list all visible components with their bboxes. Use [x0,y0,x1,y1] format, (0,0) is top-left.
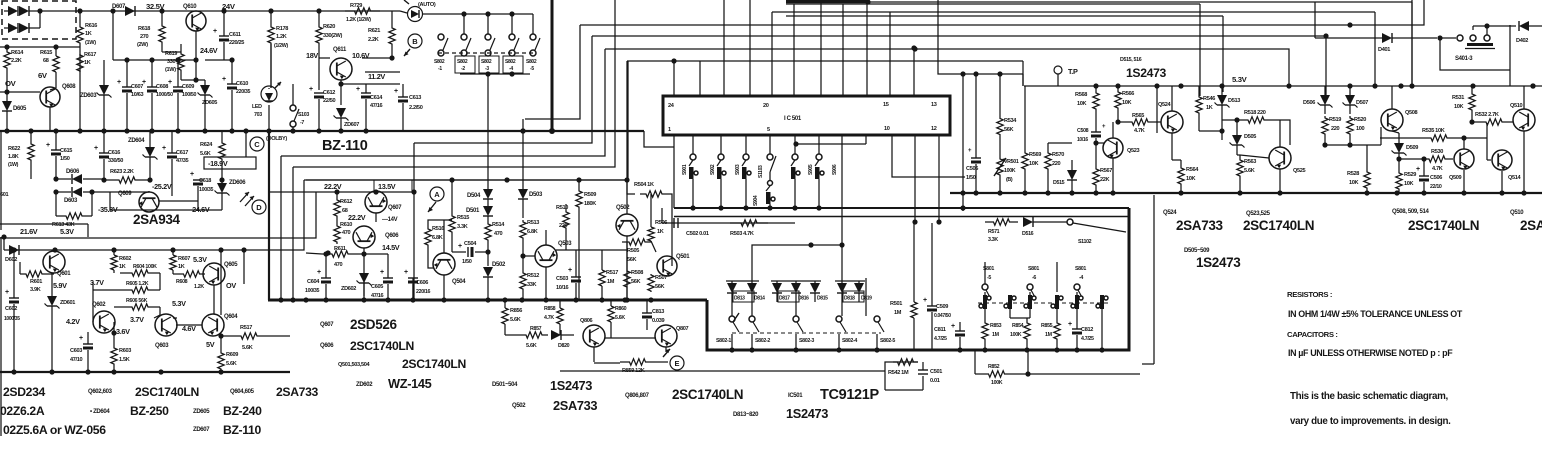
svg-text:R512: R512 [527,273,539,279]
svg-text:33K: 33K [527,282,537,288]
svg-text:Q508: Q508 [1405,110,1418,116]
wire Q609 row [110,191,222,210]
resistor R504 [634,182,672,266]
svg-text:R609: R609 [226,352,238,358]
wire pinB x866 [793,135,866,147]
resistor R610 [334,218,352,244]
junction y193 [1237,190,1242,195]
label Q508,509,514 [1392,209,1429,215]
resistor R513 [520,220,539,240]
wire pinB x746 [745,135,747,154]
svg-text:2SA733: 2SA733 [553,398,597,413]
contact c3 [1024,292,1036,318]
svg-text:S103: S103 [298,112,309,118]
svg-text:vary due to improvements. in d: vary due to improvements. in design. [1290,416,1451,427]
wire left edge [0,237,2,436]
svg-text:24.6V: 24.6V [200,46,218,55]
wire q509 links [1464,138,1502,193]
svg-text:1M: 1M [1045,332,1053,338]
resistor R528 [1347,145,1370,193]
svg-text:10/16: 10/16 [556,285,568,291]
switch S802-1b [716,313,739,350]
switch S802-5t [526,14,540,72]
svg-text:(1W): (1W) [8,162,19,168]
svg-text:S904: S904 [753,195,759,206]
resistor R622 [8,131,34,179]
label 5.3V node [193,255,207,264]
junction [11,369,16,374]
svg-text:S401-3: S401-3 [1455,56,1473,62]
svg-text:+: + [404,269,408,276]
svg-text:S901: S901 [682,164,688,175]
pin 12 [931,126,937,132]
wire pin x821 [820,0,822,96]
svg-text:R546: R546 [1203,96,1215,102]
svg-text:C813: C813 [652,309,664,315]
wire s801 dashed [978,302,1108,304]
diode D503 [518,128,543,218]
junction [520,128,525,133]
junction [175,128,180,133]
wire bus y36 [592,33,1329,38]
svg-text:2SC1740LN: 2SC1740LN [1408,218,1479,233]
svg-text:ZD605: ZD605 [202,100,217,106]
svg-text:-4: -4 [1079,275,1083,281]
resistor R546 [1196,86,1215,131]
label 2SA733 [276,385,319,399]
svg-text:RESISTORS :: RESISTORS : [1287,290,1332,299]
svg-text:R532 2.7K: R532 2.7K [1475,112,1499,118]
svg-text:R570: R570 [1052,152,1064,158]
node E circled [663,349,684,370]
note basic1 [1290,391,1448,402]
svg-text:R569: R569 [1029,152,1041,158]
label 5V [206,340,215,349]
transistor Q606 [353,226,399,248]
svg-text:Q504: Q504 [452,279,466,285]
junction y86 [1347,83,1352,88]
label Q524 type [1163,210,1177,216]
svg-text:1000/35: 1000/35 [4,316,20,322]
wire pinB x843 [841,135,843,281]
svg-text:10.6V: 10.6V [352,51,370,60]
svg-text:C618: C618 [199,178,211,184]
label TC9121P [820,387,879,403]
label Q523,525 [1246,211,1271,217]
label ZD605 type [193,409,210,415]
junction y193 [1069,190,1074,195]
svg-text:LED: LED [252,104,262,110]
label Q502 type [512,403,526,409]
junction y211 [690,205,695,210]
wire d8xx header [726,280,865,282]
rectifier diode pair lower [4,11,40,33]
svg-text:Q806: Q806 [580,318,593,324]
label 5.3V node2 [172,299,186,308]
svg-text:2SC1740LN: 2SC1740LN [1243,218,1314,233]
zener ZD603 [80,60,112,131]
wire main rail y=131 [0,130,644,132]
junction [158,369,163,374]
svg-text:C502 0.01: C502 0.01 [686,231,709,237]
svg-text:Q510: Q510 [1510,210,1524,216]
svg-text:C608: C608 [156,84,168,90]
svg-text:1M: 1M [894,310,902,316]
svg-text:5.6K: 5.6K [1244,168,1255,174]
svg-text:(1W): (1W) [85,40,96,46]
junction y300 [385,297,390,302]
junction y300 [290,297,295,302]
svg-text:2SA733: 2SA733 [276,385,319,399]
svg-text:47/16: 47/16 [370,103,382,109]
resistor R604 [114,264,160,276]
svg-text:D503: D503 [529,192,543,198]
svg-text:5.6K: 5.6K [226,361,237,367]
svg-text:R621: R621 [368,28,380,34]
svg-text:R535 10K: R535 10K [1422,128,1445,134]
resistor R517m [599,250,618,300]
pin 10 [884,126,890,132]
svg-text:C603: C603 [70,348,82,354]
label D813~820 [733,412,759,418]
label 2SC1740LN [135,385,199,399]
svg-text:R606 56K: R606 56K [126,298,148,304]
resistor R852 [975,350,1140,386]
contact c1 [979,292,991,322]
label ZD604 type [90,409,110,415]
svg-text:+: + [79,335,83,342]
svg-text:Q524: Q524 [1158,102,1172,108]
label -18.9V boxed [204,131,256,169]
resistor R567 [1093,143,1112,193]
pin 15 [883,102,889,108]
svg-text:270: 270 [140,34,149,40]
capacitor C611 [213,8,244,60]
IC U501 box [663,96,950,135]
svg-text:S906: S906 [832,164,838,175]
resistor R603 [111,330,131,372]
svg-text:D505~509: D505~509 [1184,248,1210,254]
svg-text:+: + [5,289,9,296]
svg-text:R501: R501 [890,301,902,307]
junction y350 [836,347,841,352]
capacitor C506 [1416,159,1442,193]
svg-text:1000/50: 1000/50 [156,92,173,98]
svg-text:C609: C609 [182,84,194,90]
svg-text:R542 1M: R542 1M [888,370,909,376]
svg-text:R618: R618 [138,26,150,32]
svg-text:D402: D402 [1516,38,1528,44]
label OV node [226,281,236,290]
svg-text:R529: R529 [1404,172,1416,178]
transistor Q524 [1158,102,1183,133]
wire pin x750 [749,0,751,96]
transistor Q603 [155,314,177,349]
label 2SC1740LN big [1243,218,1314,233]
svg-text:S801: S801 [1075,266,1086,272]
label BZ-110 [322,138,368,154]
svg-text:2SC1740LN: 2SC1740LN [672,387,743,402]
svg-text:D814: D814 [754,296,765,302]
pin 24 [668,103,675,109]
junction y193 [1364,190,1369,195]
wire q523 links [1093,122,1113,193]
svg-text:1S2473: 1S2473 [1196,255,1241,270]
resistor R509 [576,180,596,300]
label 24.6V [200,46,218,55]
svg-text:1S2473: 1S2473 [550,378,592,393]
svg-text:02Z5.6A or WZ-056: 02Z5.6A or WZ-056 [3,423,106,437]
svg-text:R516: R516 [432,226,444,232]
svg-text:S802: S802 [505,59,516,65]
switch S802-4b [836,316,857,350]
zener D507 [1343,86,1369,114]
junction y300 [599,297,604,302]
transistor Q609 [118,191,159,212]
wire pinB x795 [794,135,796,154]
junction [549,128,554,133]
label 1S2473 mid [550,378,592,393]
svg-text:R615: R615 [40,50,52,56]
label 1S2473 b [786,406,828,421]
capacitor C613 [394,84,423,131]
junction [49,369,54,374]
auto diode circle [404,0,423,22]
junction [241,247,246,252]
svg-text:100K: 100K [991,380,1003,386]
svg-text:10/63: 10/63 [131,92,143,98]
wire bus y12 [772,11,1375,13]
junction y300 [624,297,629,302]
svg-text:10K: 10K [1454,104,1464,110]
svg-text:5.6K: 5.6K [242,345,253,351]
svg-text:BZ-110: BZ-110 [223,423,261,437]
svg-text:Q807: Q807 [676,326,689,332]
svg-text:Q601: Q601 [57,271,71,277]
svg-text:2SA733: 2SA733 [1176,218,1224,233]
junction y86 [1178,83,1183,88]
svg-text:+: + [117,79,121,86]
diode D818 [837,281,864,302]
svg-text:R565: R565 [1132,113,1144,119]
svg-text:D816: D816 [798,296,809,302]
svg-text:10K: 10K [1122,100,1132,106]
junction y300 [573,297,578,302]
svg-text:100/35: 100/35 [199,187,214,193]
junction y86 [1470,83,1475,88]
IC501 name [784,116,802,122]
svg-text:Q524: Q524 [1163,210,1177,216]
junction [52,247,57,252]
junction [85,369,90,374]
svg-text:4.7/25: 4.7/25 [934,336,947,342]
label Q510t [1510,210,1524,216]
resistor R616 [77,22,97,48]
svg-text:C: C [254,140,260,149]
capacitor C606 [404,269,431,300]
wire pin x867 [866,2,868,96]
svg-text:2SC1740LN: 2SC1740LN [350,339,414,353]
label 3.7V node2 [130,315,144,324]
label (AUTO) [418,2,436,8]
transistor Q501 [657,254,690,276]
svg-text:C611: C611 [229,32,241,38]
diode D606 [53,169,104,184]
svg-text:R622: R622 [8,146,20,152]
resistor R615 [40,44,59,88]
wire q508 [1322,86,1399,148]
svg-text:68: 68 [43,58,49,64]
resistor R606 [114,298,160,315]
diode D502 [483,242,506,300]
wire pin x772 [771,12,773,96]
diode D401 [1315,2,1443,53]
label WZ-145 [388,376,432,391]
test point TP [1054,66,1078,86]
svg-text:2SC1740LN: 2SC1740LN [135,385,199,399]
svg-text:C617: C617 [176,150,188,156]
svg-text:+: + [923,297,927,304]
svg-text:R518 220: R518 220 [1244,110,1266,116]
capacitor C610 [205,57,251,131]
wire bus y16 [786,15,1223,17]
junction y193 [1521,190,1526,195]
svg-text:BZ-110: BZ-110 [322,138,368,154]
svg-text:S802-4: S802-4 [842,338,857,344]
label Q604,605 [230,389,255,395]
wire Q611 base [319,55,395,90]
resistor R605 [93,273,160,322]
svg-text:Q603: Q603 [155,343,169,349]
svg-text:-5: -5 [530,66,534,72]
switch S401-3 [1455,35,1495,62]
svg-text:1/50: 1/50 [60,156,70,162]
wire pinB x770 [769,135,771,154]
label Q606 2SC1740LN [320,339,414,353]
junction [11,247,16,252]
resistor R520 [1347,116,1366,145]
junction y300 [543,297,548,302]
svg-text:R729: R729 [350,3,362,9]
resistor R857 [505,326,548,349]
svg-text:S1103: S1103 [758,165,764,178]
svg-text:220/25: 220/25 [229,40,244,46]
wire left 6V row [0,46,80,48]
svg-text:OV: OV [226,281,236,290]
diode D603 [56,187,110,204]
svg-text:R563: R563 [1244,159,1256,165]
contact c2 [1004,295,1016,318]
junction y193 [1461,190,1466,195]
svg-text:Q501: Q501 [676,254,690,260]
junction y211 [792,205,797,210]
svg-text:5.3V: 5.3V [1232,75,1248,84]
svg-text:1.2K (1/2W): 1.2K (1/2W) [346,17,371,23]
svg-text:R528: R528 [1347,171,1359,177]
wire q806 q807 links [594,330,666,362]
junction y193 [1093,190,1098,195]
resistor R503 [730,220,768,237]
wire left border bottom [0,131,88,237]
capacitor C501 [885,362,942,390]
svg-text:D509: D509 [1406,145,1418,151]
wire bus x1200 drop [1199,4,1201,96]
switch S103-7 [290,84,309,131]
svg-text:ZD607: ZD607 [193,427,210,433]
resistor R535 [1380,123,1491,160]
svg-text:Q611: Q611 [333,47,347,53]
junction y350 [749,347,754,352]
svg-text:Q610: Q610 [183,4,197,10]
svg-text:D813~820: D813~820 [733,412,759,418]
svg-text:+: + [568,267,572,274]
svg-text:S802-5: S802-5 [880,338,895,344]
svg-text:18V: 18V [306,51,318,60]
junction [124,128,129,133]
wire s401 up [1473,23,1516,35]
svg-text:C616: C616 [108,150,120,156]
resistor R516m [425,220,452,268]
svg-text:D515, 516: D515, 516 [1120,57,1142,63]
wire x1058 tp [1022,74,1024,86]
resistor R601 [20,262,54,293]
svg-text:R509: R509 [584,192,596,198]
svg-text:15: 15 [883,102,889,108]
junction [111,369,116,374]
svg-text:5.6K: 5.6K [526,343,537,349]
resistor R614 [4,44,24,82]
resistor R568 [1075,86,1099,111]
junction y300 [519,297,524,302]
pin 5 [767,127,770,133]
svg-text:C613: C613 [409,95,421,101]
resistor R621 [368,11,395,58]
svg-text:703: 703 [254,112,262,118]
svg-text:R858: R858 [544,306,556,312]
svg-text:Q509: Q509 [1449,175,1462,181]
wire pin x890 [889,12,891,96]
transistor Q504 [433,253,466,285]
wire q504 [443,220,445,300]
resistor R609 [218,333,238,372]
wire rail y86 [1024,85,1542,87]
resistor R566 [1115,86,1134,122]
svg-text:470: 470 [334,262,343,268]
wire rail y193 right [950,192,1542,194]
svg-text:-5: -5 [987,275,991,281]
resistor R514 [485,216,505,242]
svg-text:4.2V: 4.2V [66,317,80,326]
junction y350 [1024,347,1029,352]
svg-text:22.2V: 22.2V [348,213,366,222]
svg-text:R568: R568 [1075,92,1087,98]
resistor R530 [1399,149,1453,172]
svg-text:+: + [458,243,462,250]
svg-text:68: 68 [342,208,348,214]
label 02Z6.2A [0,404,45,418]
svg-text:6.8K: 6.8K [527,229,538,235]
note RESISTORS [1287,290,1332,299]
svg-text:Q604: Q604 [224,314,238,320]
junction y86 [1115,83,1120,88]
label 10.6V [352,51,370,60]
svg-text:13.5V: 13.5V [378,182,396,191]
wire bus y4 [786,3,1200,5]
svg-text:ZD605: ZD605 [193,409,210,415]
svg-text:1.2K: 1.2K [276,34,287,40]
node C circled [250,137,264,151]
switch S1102 [1033,219,1126,245]
